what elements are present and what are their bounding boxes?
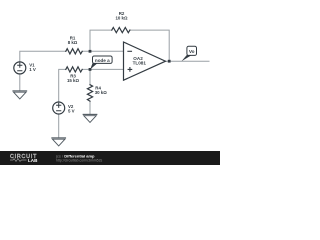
svg-text:1 V: 1 V xyxy=(29,67,36,72)
wire R2 right to feedback drop xyxy=(130,30,169,61)
ground under V2 xyxy=(52,137,66,139)
wire node to R2 riser xyxy=(90,30,112,51)
svg-text:15 kΩ: 15 kΩ xyxy=(67,78,80,83)
svg-text:5 V: 5 V xyxy=(68,109,75,114)
svg-text:10 kΩ: 10 kΩ xyxy=(115,16,128,21)
op-amp plus mark xyxy=(128,68,132,72)
wire V2 top to R3 xyxy=(59,69,66,102)
svg-text:30 kΩ: 30 kΩ xyxy=(95,90,108,95)
op-amp U1 triangle xyxy=(124,42,166,80)
wire output xyxy=(166,60,210,62)
resistor R3 xyxy=(66,67,82,72)
Vo flag xyxy=(182,46,197,61)
ground under V1 xyxy=(13,90,27,92)
node a flag xyxy=(90,56,112,69)
wire R1 to op-amp inverting input xyxy=(82,50,123,52)
op-amp minus mark xyxy=(128,50,132,52)
svg-text:http://circuitlab.com/c6mm52s: http://circuitlab.com/c6mm52s xyxy=(56,158,103,162)
svg-text:LAB: LAB xyxy=(28,158,38,163)
wire V2 bottom to ground xyxy=(58,114,60,138)
svg-text:8 kΩ: 8 kΩ xyxy=(68,40,78,45)
footer bar xyxy=(0,151,220,165)
wire node a to R4 xyxy=(89,69,91,84)
voltage source V2 xyxy=(53,102,65,114)
wire V1 bottom to ground xyxy=(19,74,21,91)
ground under R4 xyxy=(83,113,97,115)
wire R4 to ground xyxy=(89,101,91,114)
wire R3 to op-amp non-inverting input xyxy=(82,68,123,70)
wire V1 top to R1 xyxy=(20,51,66,62)
voltage source V1 xyxy=(14,62,26,74)
node junction R1/R2/op-amp xyxy=(89,50,92,53)
svg-text:Vo: Vo xyxy=(189,49,195,54)
footer logo zigzag xyxy=(10,159,27,162)
svg-text:node a: node a xyxy=(95,58,110,63)
resistor R4 xyxy=(87,85,92,102)
svg-text:TL081: TL081 xyxy=(133,61,147,66)
node junction feedback/output xyxy=(168,60,171,63)
node a junction R3/R4/op-amp xyxy=(89,68,92,71)
resistor R1 xyxy=(66,49,82,54)
resistor R2 xyxy=(112,28,130,33)
